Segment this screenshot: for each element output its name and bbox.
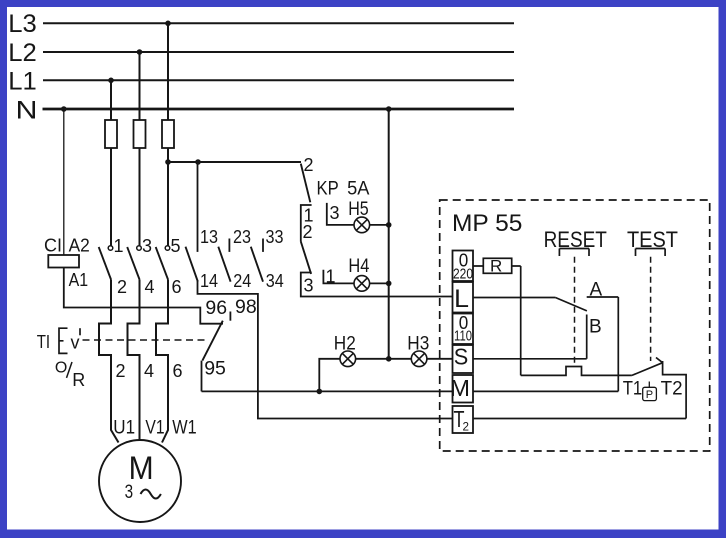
svg-text:2: 2 bbox=[116, 361, 126, 381]
svg-text:3: 3 bbox=[304, 276, 314, 296]
svg-text:3: 3 bbox=[125, 482, 134, 503]
svg-text:T1: T1 bbox=[623, 378, 643, 399]
svg-text:KP: KP bbox=[317, 179, 339, 200]
svg-text:L1: L1 bbox=[8, 67, 37, 95]
svg-text:TEST: TEST bbox=[627, 227, 678, 252]
svg-text:H2: H2 bbox=[334, 334, 356, 355]
svg-text:110: 110 bbox=[454, 329, 472, 345]
svg-text:v: v bbox=[71, 333, 80, 353]
svg-text:CI: CI bbox=[44, 236, 62, 256]
svg-text:1: 1 bbox=[114, 236, 124, 256]
svg-text:O: O bbox=[55, 359, 67, 376]
svg-text:96: 96 bbox=[205, 297, 227, 319]
svg-text:L: L bbox=[454, 285, 469, 313]
svg-text:B: B bbox=[589, 317, 602, 338]
svg-text:U1: U1 bbox=[113, 417, 135, 438]
svg-text:95: 95 bbox=[204, 358, 226, 380]
svg-text:M: M bbox=[129, 450, 154, 486]
svg-text:13: 13 bbox=[200, 227, 218, 247]
svg-text:A: A bbox=[590, 280, 603, 301]
svg-text:24: 24 bbox=[233, 271, 251, 291]
svg-text:RESET: RESET bbox=[544, 227, 608, 252]
svg-text:6: 6 bbox=[172, 277, 182, 297]
svg-text:2: 2 bbox=[304, 155, 314, 175]
svg-text:R: R bbox=[490, 257, 502, 276]
svg-text:V1: V1 bbox=[145, 417, 164, 438]
svg-text:4: 4 bbox=[144, 361, 154, 381]
svg-text:1: 1 bbox=[326, 266, 336, 286]
svg-text:T2: T2 bbox=[661, 378, 683, 399]
svg-text:4: 4 bbox=[145, 277, 155, 297]
svg-text:5A: 5A bbox=[347, 179, 370, 200]
svg-text:S: S bbox=[454, 344, 469, 370]
svg-text:23: 23 bbox=[233, 227, 251, 247]
svg-text:6: 6 bbox=[173, 361, 183, 381]
svg-text:W1: W1 bbox=[172, 417, 196, 438]
svg-text:TI: TI bbox=[37, 332, 50, 352]
svg-text:R: R bbox=[72, 370, 85, 390]
svg-text:2: 2 bbox=[303, 222, 313, 242]
svg-text:5: 5 bbox=[171, 236, 181, 256]
svg-text:L2: L2 bbox=[8, 39, 37, 67]
svg-text:H3: H3 bbox=[407, 334, 429, 355]
svg-text:M: M bbox=[450, 375, 470, 401]
svg-text:2: 2 bbox=[463, 420, 470, 434]
svg-text:34: 34 bbox=[266, 271, 284, 291]
svg-text:H5: H5 bbox=[348, 199, 369, 220]
svg-text:220: 220 bbox=[453, 267, 473, 283]
svg-text:P: P bbox=[646, 389, 653, 401]
svg-text:H4: H4 bbox=[348, 256, 369, 277]
svg-text:L3: L3 bbox=[8, 10, 37, 38]
svg-text:33: 33 bbox=[266, 227, 284, 247]
svg-text:A2: A2 bbox=[69, 236, 90, 256]
svg-text:98: 98 bbox=[235, 296, 257, 318]
svg-text:N: N bbox=[16, 97, 38, 125]
svg-text:MP 55: MP 55 bbox=[452, 210, 522, 237]
svg-text:3: 3 bbox=[142, 236, 152, 256]
svg-text:14: 14 bbox=[200, 271, 218, 291]
svg-text:A1: A1 bbox=[69, 270, 89, 290]
svg-text:3: 3 bbox=[330, 203, 340, 223]
svg-text:2: 2 bbox=[117, 277, 127, 297]
